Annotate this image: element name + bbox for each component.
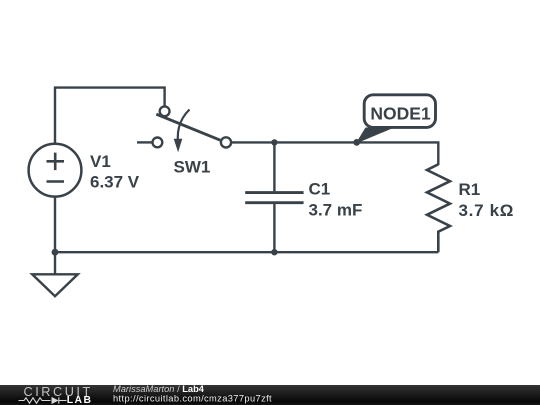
bottom wire from R1 bottom to V1 bottom	[55, 197, 438, 252]
switch SW1 arrow head	[174, 139, 183, 153]
node label NODE1 balloon	[356, 95, 436, 144]
junction at V1 bottom / ground node	[52, 249, 59, 256]
svg-text:6.37 V: 6.37 V	[90, 173, 140, 192]
svg-text:SW1: SW1	[174, 157, 211, 176]
capacitor C1	[245, 142, 303, 252]
junction at C1 top	[271, 139, 277, 145]
ground symbol	[32, 252, 78, 296]
svg-text:C1: C1	[309, 180, 331, 199]
CircuitLab logo: resistor zigzag and diode wire	[19, 397, 67, 403]
svg-text:R1: R1	[459, 180, 481, 199]
label V1 6.37 V	[90, 152, 140, 192]
footer bar	[0, 385, 540, 405]
wire from V1 top up and over to switch SW1 top terminal	[55, 88, 165, 143]
svg-text:3.7 mF: 3.7 mF	[309, 201, 363, 220]
svg-text:NODE1: NODE1	[370, 103, 431, 123]
svg-text:LAB: LAB	[67, 395, 93, 405]
resistor R1	[427, 164, 450, 252]
CircuitLab logo: diode triangle	[52, 397, 59, 404]
junction at NODE1	[353, 139, 360, 146]
label C1 3.7 mF	[309, 180, 363, 220]
voltage source V1	[29, 144, 82, 197]
svg-text:3.7 kΩ: 3.7 kΩ	[459, 201, 515, 220]
switch SW1	[137, 106, 231, 147]
junction at C1 bottom	[271, 249, 277, 255]
svg-text:http://circuitlab.com/cmza377p: http://circuitlab.com/cmza377pu7zft	[113, 394, 272, 404]
svg-text:MarissaMarton / Lab4: MarissaMarton / Lab4	[113, 384, 205, 394]
label R1 3.7 kOhm	[459, 180, 515, 220]
wire from switch right terminal to R1 top corner	[231, 142, 438, 165]
svg-text:V1: V1	[90, 152, 111, 171]
